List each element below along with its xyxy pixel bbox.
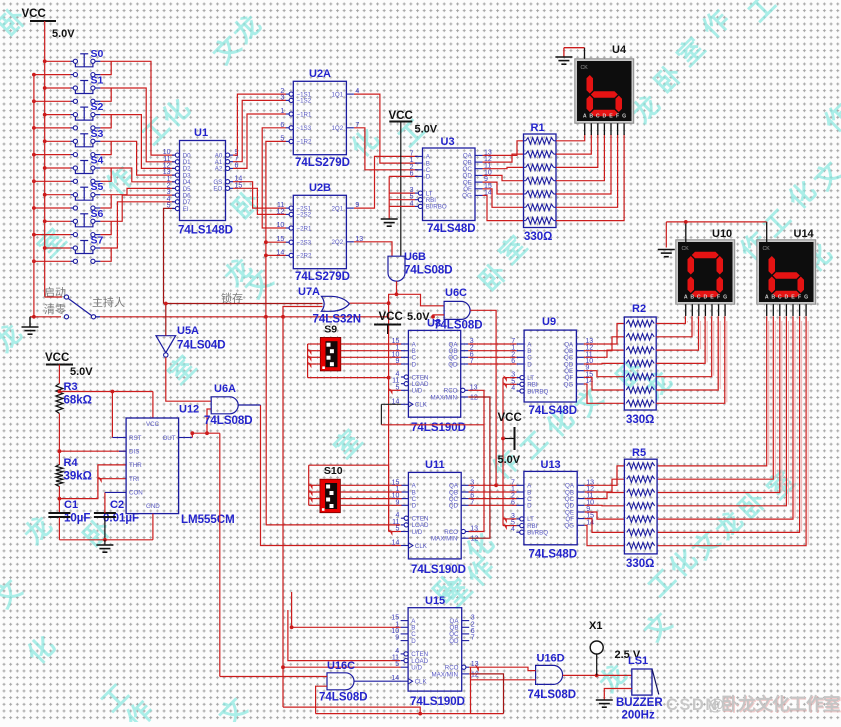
wire U11 CLK from U6A [261, 405, 401, 546]
wire U9 outputs to R2 [584, 324, 624, 345]
wire S7 lower contact hook [100, 248, 111, 261]
wire latch to U5A [165, 304, 167, 336]
wire U9 vcc ties [503, 377, 517, 379]
svg-text:C: C [778, 295, 782, 301]
wire U8 RCO down [468, 390, 484, 531]
wire U15 B input [292, 592, 401, 627]
svg-text:C1: C1 [64, 499, 78, 511]
svg-text:U/D: U/D [412, 529, 423, 536]
encoder U1 74LS148D [180, 141, 226, 221]
svg-text:U/D: U/D [412, 388, 423, 395]
counter U11 74LS190D [408, 472, 461, 559]
svg-text:U4: U4 [612, 44, 627, 56]
svg-text:QD: QD [449, 638, 459, 645]
wire U6B out to U6C [397, 294, 445, 306]
svg-text:CK: CK [581, 65, 589, 71]
wire U15 MM to rail [469, 674, 503, 714]
svg-text:QD: QD [448, 361, 458, 368]
svg-text:X1: X1 [589, 620, 602, 632]
svg-text:B: B [589, 114, 593, 120]
wire U3 ground ties [389, 175, 418, 177]
wire vcc down [58, 365, 60, 384]
svg-text:2Q1: 2Q1 [331, 205, 343, 212]
svg-text:74LS48D: 74LS48D [529, 549, 578, 561]
wire S6 to U1 [100, 195, 174, 221]
svg-text:MAX/MIN: MAX/MIN [432, 671, 458, 678]
svg-text:CLK: CLK [415, 402, 428, 409]
wire S4 to U1 [100, 168, 174, 182]
svg-text:A: A [765, 295, 769, 301]
wire latch line [164, 303, 323, 305]
wire host to U7A in2 [283, 307, 323, 317]
svg-text:E: E [609, 114, 613, 120]
svg-text:D: D [603, 114, 607, 120]
wire host line [100, 316, 389, 318]
svg-text:RST: RST [129, 435, 142, 442]
wire U11 U/D arrow [389, 529, 393, 536]
svg-text:74LS48D: 74LS48D [427, 223, 476, 235]
wire S1 to U1 [100, 88, 174, 162]
svg-text:330Ω: 330Ω [626, 414, 654, 426]
svg-text:S1: S1 [91, 75, 104, 87]
svg-text:S9: S9 [324, 323, 337, 335]
svg-text:330Ω: 330Ω [626, 558, 654, 570]
svg-text:4: 4 [511, 526, 515, 533]
svg-text:5: 5 [280, 135, 284, 142]
counter U15 74LS190D [408, 608, 462, 691]
svg-text:U2A: U2A [309, 68, 331, 80]
switch S7 [45, 247, 71, 249]
svg-text:U6A: U6A [214, 383, 236, 395]
resistor pack R5 330ohm [624, 459, 657, 554]
ground U4 [555, 56, 572, 58]
svg-text:74LS279D: 74LS279D [295, 157, 350, 169]
svg-text:VCC: VCC [498, 412, 522, 424]
svg-text:龙: 龙 [738, 694, 756, 714]
wire CON to C2 [104, 492, 106, 513]
svg-text:74LS04D: 74LS04D [177, 340, 226, 352]
svg-text:U5A: U5A [177, 325, 199, 337]
svg-text:文: 文 [755, 694, 773, 714]
svg-text:5.0V: 5.0V [415, 124, 438, 136]
wire OUT down to U16C [219, 433, 221, 676]
switch S5 [45, 194, 71, 196]
svg-text:D: D [704, 295, 708, 301]
resistor pack R2 330ohm [624, 317, 656, 410]
wire S6 lower contact hook [100, 221, 111, 234]
svg-text:5.0V: 5.0V [52, 28, 75, 40]
svg-text:VCC: VCC [146, 421, 160, 428]
svg-text:卧: 卧 [721, 694, 739, 714]
wire bottom rail [316, 713, 504, 715]
svg-text:U/D: U/D [411, 665, 422, 672]
svg-text:74LS48D: 74LS48D [529, 405, 578, 417]
svg-text:9: 9 [395, 358, 399, 365]
latch U2A 74LS279D [293, 81, 346, 154]
svg-text:U12: U12 [179, 404, 199, 416]
svg-text:D: D [412, 503, 417, 510]
svg-text:F: F [616, 114, 619, 120]
svg-text:U8: U8 [427, 318, 441, 330]
svg-text:S10: S10 [324, 465, 343, 477]
wire vcc branch to 555 [59, 391, 152, 393]
wire U2B 2Q1 to U3 A [354, 156, 418, 208]
wire U1 EI to latch line [164, 208, 175, 303]
display U4 [575, 59, 634, 123]
wire U15 RCO to U16D [469, 667, 535, 670]
wire 555 GND pin [152, 514, 154, 540]
wire bottom rail 555 [59, 539, 152, 541]
wire U8 U/D from clock rail [389, 388, 393, 395]
counter U8 74LS190D [408, 330, 460, 417]
svg-text:R4: R4 [64, 457, 79, 469]
svg-text:U10: U10 [712, 228, 732, 240]
svg-text:作: 作 [806, 694, 824, 714]
svg-text:12: 12 [471, 671, 479, 678]
svg-text:74LS08D: 74LS08D [204, 415, 253, 427]
svg-text:S4: S4 [91, 155, 104, 167]
svg-text:S2: S2 [91, 101, 104, 113]
svg-text:7: 7 [471, 635, 475, 642]
svg-text:A: A [684, 295, 688, 301]
svg-text:工: 工 [789, 694, 807, 714]
svg-text:THR: THR [129, 462, 142, 469]
svg-text:GND: GND [146, 503, 160, 510]
svg-text:U7A: U7A [298, 286, 320, 298]
wire rail up to U16D in2 [470, 667, 472, 713]
wire U6C out to U11 QA node [470, 310, 496, 485]
svg-text:QG: QG [564, 381, 574, 388]
svg-text:~2R1: ~2R1 [297, 225, 313, 232]
wire U14 pins to R5 [657, 316, 767, 466]
svg-text:清零: 清零 [44, 303, 66, 316]
svg-text:74LS148D: 74LS148D [178, 225, 233, 237]
svg-text:D: D [426, 174, 431, 181]
wire R4 to C1 [58, 486, 60, 513]
wire U2B 2Q2 to U6B [354, 242, 392, 256]
svg-text:~2R2: ~2R2 [297, 253, 313, 260]
svg-text:~1R2: ~1R2 [297, 139, 313, 146]
svg-text:G: G [723, 295, 727, 301]
svg-text:F: F [717, 295, 720, 301]
svg-text:6: 6 [410, 170, 414, 177]
wire U1 A0 to U2A [233, 94, 286, 155]
wire DIS tap [59, 450, 126, 452]
svg-text:R1: R1 [531, 122, 545, 134]
svg-text:U6C: U6C [445, 287, 467, 299]
svg-text:6: 6 [511, 358, 515, 365]
wire S3 lower contact hook [100, 141, 111, 154]
svg-text:12: 12 [277, 208, 285, 215]
wire U1 GS to U2B [233, 182, 286, 208]
switch host SPDT [45, 296, 62, 298]
wire displays CK to ground [685, 222, 687, 242]
wire U16C in2 [316, 686, 327, 713]
wires S9 bus [308, 343, 321, 345]
svg-text:VCC: VCC [389, 110, 413, 122]
svg-text:EO: EO [213, 186, 222, 193]
svg-text:MAX/MIN: MAX/MIN [431, 536, 457, 543]
svg-text:6: 6 [511, 499, 515, 506]
wire U6A out [239, 404, 261, 406]
svg-text:74LS08D: 74LS08D [404, 265, 453, 277]
wire VCC to U6B [400, 122, 402, 257]
wire U16D out to buzzer [563, 674, 632, 676]
svg-text:1: 1 [280, 108, 284, 115]
wire U8 MM to U11 MM [468, 397, 490, 538]
svg-text:BI/RBO: BI/RBO [426, 204, 447, 211]
timer U12 LM555CM [126, 418, 179, 514]
svg-text:9: 9 [395, 635, 399, 642]
wire S4 lower contact hook [100, 168, 111, 181]
wire U7A out [350, 302, 389, 304]
wire OUT to U6A in2 [207, 409, 211, 433]
svg-text:LS1: LS1 [628, 655, 648, 667]
wire U11 outputs to U13 [469, 484, 517, 486]
wire S2 lower contact hook [100, 115, 111, 128]
svg-text:CK: CK [763, 246, 771, 252]
svg-text:BI/RBQ: BI/RBQ [527, 388, 548, 395]
wire U1 A2 to U2A [233, 114, 286, 168]
svg-text:化: 化 [772, 694, 790, 714]
svg-text:D: D [527, 503, 532, 510]
svg-text:E: E [791, 295, 795, 301]
svg-text:LM555CM: LM555CM [181, 514, 235, 526]
wire U3 outputs to R1 [483, 141, 524, 156]
svg-text:U16C: U16C [327, 660, 355, 672]
switch S6 [45, 220, 71, 222]
decoder U9 74LS48D [524, 330, 576, 402]
svg-text:U1: U1 [194, 127, 208, 139]
svg-text:C2: C2 [110, 499, 124, 511]
switch S4 [45, 167, 71, 169]
wire U16C in1 from 555 [220, 676, 327, 678]
svg-text:VCC: VCC [379, 311, 403, 323]
svg-text:14: 14 [277, 249, 285, 256]
svg-text:~1S3: ~1S3 [297, 125, 312, 132]
svg-text:TRI: TRI [129, 476, 139, 483]
wire U15 U/D [283, 666, 401, 668]
svg-text:C: C [596, 114, 600, 120]
svg-text:D: D [411, 638, 416, 645]
display U10 [676, 240, 735, 304]
svg-text:VCC: VCC [22, 8, 46, 20]
wire U6C in2 [433, 315, 444, 317]
svg-text:4: 4 [410, 200, 414, 207]
svg-text:74LS08D: 74LS08D [434, 320, 483, 332]
wire S7 to U1 [100, 202, 174, 248]
svg-text:QG: QG [462, 193, 472, 200]
svg-text:3: 3 [280, 94, 284, 101]
svg-text:U15: U15 [425, 595, 445, 607]
wire VCC rail [44, 21, 46, 297]
svg-text:U16D: U16D [537, 653, 565, 665]
svg-text:S3: S3 [91, 128, 104, 140]
wire R2 to U10 [656, 316, 685, 323]
svg-text:S7: S7 [91, 235, 104, 247]
svg-text:39kΩ: 39kΩ [64, 471, 92, 483]
resistor pack R1 330ohm [524, 134, 557, 228]
ground near U3 [381, 218, 398, 220]
decoder U13 74LS48D [524, 471, 577, 544]
wire U6B out [389, 281, 397, 303]
svg-text:0.01µF: 0.01µF [103, 513, 139, 525]
svg-text:CLK: CLK [415, 679, 428, 686]
wire U8 outputs to U9 [468, 343, 516, 345]
wire ground rail [33, 75, 35, 317]
svg-text:13: 13 [470, 526, 478, 533]
svg-text:R2: R2 [632, 303, 646, 315]
svg-text:U11: U11 [425, 459, 445, 471]
wire S5 to U1 [100, 188, 174, 194]
svg-text:330Ω: 330Ω [524, 231, 552, 243]
svg-text:QD: QD [449, 503, 459, 510]
svg-text:OUT: OUT [162, 435, 175, 442]
svg-text:15: 15 [277, 236, 285, 243]
svg-text:CON: CON [129, 490, 143, 497]
svg-text:BUZZER: BUZZER [616, 697, 663, 709]
svg-text:~1R1: ~1R1 [297, 111, 313, 118]
svg-text:U6B: U6B [404, 251, 426, 263]
svg-text:主持人: 主持人 [92, 295, 125, 309]
svg-text:B: B [771, 295, 775, 301]
svg-text:U2B: U2B [309, 182, 331, 194]
svg-text:200Hz: 200Hz [622, 710, 655, 722]
svg-text:74LS08D: 74LS08D [528, 689, 577, 701]
ground buzzer [596, 699, 613, 701]
latch U2B 74LS279D [293, 195, 346, 268]
svg-text:S5: S5 [91, 181, 104, 193]
svg-text:BI/RBQ: BI/RBQ [527, 530, 548, 537]
wire S1 lower contact hook [100, 88, 111, 101]
svg-text:5.0V: 5.0V [70, 366, 93, 378]
decoder U3 74LS48D [423, 148, 476, 221]
wire U2A 1Q2 to U3 C [354, 128, 418, 170]
wire U13 vcc ties [503, 518, 516, 520]
svg-text:U9: U9 [542, 316, 556, 328]
svg-text:A2: A2 [215, 166, 223, 173]
svg-text:VCC: VCC [45, 352, 69, 364]
svg-text:QG: QG [564, 523, 574, 530]
svg-text:U3: U3 [441, 136, 455, 148]
svg-text:74LS190D: 74LS190D [410, 696, 465, 708]
svg-text:~2S3: ~2S3 [297, 240, 312, 247]
svg-text:2Q2: 2Q2 [331, 239, 343, 246]
wire S3 to U1 [100, 141, 174, 175]
svg-text:12: 12 [470, 395, 478, 402]
wire R1 to U4 pins [556, 134, 585, 141]
wire host rail down [282, 317, 284, 707]
switch S2 [45, 114, 71, 116]
svg-text:D: D [412, 361, 417, 368]
svg-text:DIS: DIS [129, 449, 139, 456]
svg-text:F: F [798, 295, 801, 301]
wire U8 CLK loop [381, 403, 401, 405]
wire node U2A pin6 / U2B pin10 [262, 128, 286, 228]
wire U1 EO to U2B [233, 188, 286, 214]
wire U2A 1Q1 to U3 B [354, 94, 418, 163]
svg-text:10µF: 10µF [64, 513, 90, 525]
svg-text:C: C [697, 295, 701, 301]
wire S0 lower contact hook [100, 61, 111, 74]
svg-text:5.0V: 5.0V [498, 454, 521, 466]
wire S0 to U1 [100, 61, 174, 155]
wire clock rail down [388, 303, 390, 531]
svg-text:B: B [690, 295, 694, 301]
svg-text:G: G [622, 114, 626, 120]
wire R3 to R4 [58, 414, 60, 465]
ground bottom-left [30, 316, 34, 318]
wire 555 OUT [179, 437, 193, 439]
svg-text:10: 10 [277, 222, 285, 229]
svg-text:D: D [785, 295, 789, 301]
wire U5A out to U6A [166, 357, 211, 401]
svg-text:EI: EI [183, 206, 189, 213]
CSDN watermark [666, 694, 841, 715]
wire S2 to U1 [100, 115, 174, 169]
svg-text:1Q1: 1Q1 [331, 91, 343, 98]
wire buzzer bottom to ground [604, 689, 632, 701]
svg-text:R5: R5 [632, 447, 646, 459]
svg-text:U14: U14 [794, 228, 815, 240]
svg-text:CK: CK [682, 246, 690, 252]
display U14 [757, 240, 816, 304]
svg-text:6: 6 [280, 122, 284, 129]
wire U1 A1 to U2A [233, 100, 286, 161]
svg-text:MAX/MIN: MAX/MIN [431, 395, 457, 402]
svg-text:E: E [710, 295, 714, 301]
svg-text:CLK: CLK [415, 543, 428, 550]
svg-text:68kΩ: 68kΩ [64, 395, 92, 407]
svg-text:5: 5 [167, 203, 171, 210]
svg-text:A: A [583, 114, 587, 120]
svg-text:G: G [804, 295, 808, 301]
svg-text:~1S2: ~1S2 [297, 98, 312, 105]
wire THR TRI [59, 465, 126, 499]
svg-text:74LS190D: 74LS190D [411, 422, 466, 434]
svg-text:~2S2: ~2S2 [297, 212, 312, 219]
svg-text:S6: S6 [91, 208, 104, 220]
svg-text:74LS190D: 74LS190D [411, 564, 466, 576]
wire node U2A pin5 / U2B pins 15,14 to clear rail [266, 141, 286, 316]
svg-text:室: 室 [823, 694, 841, 714]
svg-text:1Q2: 1Q2 [331, 125, 343, 132]
wire U16C out to U15 CLK [354, 680, 401, 682]
wire U15 LOAD [288, 610, 400, 661]
svg-text:D: D [527, 361, 532, 368]
svg-text:12: 12 [471, 536, 479, 543]
ground displays [658, 249, 675, 251]
svg-text:U13: U13 [541, 459, 561, 471]
wire U13 outputs to R5 [585, 466, 625, 485]
switch S3 [45, 140, 71, 142]
switch S1 [45, 87, 71, 89]
svg-text:74LS279D: 74LS279D [295, 271, 350, 283]
wire S5 lower contact hook [100, 195, 111, 208]
ground 555 [104, 540, 106, 545]
svg-text:S0: S0 [91, 48, 104, 60]
switch S0 [45, 60, 71, 62]
svg-text:74LS08D: 74LS08D [319, 692, 368, 704]
wire host rail bottom step [283, 707, 420, 714]
wire U4 CK to ground [584, 48, 586, 59]
svg-text:4: 4 [511, 385, 515, 392]
wire U11 LOAD from clear rail [266, 317, 400, 525]
